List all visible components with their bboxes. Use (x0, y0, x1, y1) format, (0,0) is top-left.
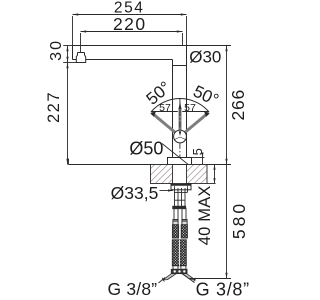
hose end left angled (163, 274, 176, 280)
arrow 580 bottom (225, 273, 227, 279)
pivot circle (174, 130, 187, 143)
arrow 40max top (213, 165, 215, 170)
svg-text:40 MAX: 40 MAX (196, 185, 214, 245)
leader G3/8 right (184, 275, 195, 283)
svg-text:580: 580 (229, 201, 249, 239)
svg-text:G 3/8”: G 3/8” (107, 279, 157, 299)
arrow 5 bottom (201, 165, 203, 170)
leader Ø33,5 (160, 190, 174, 192)
dimension 266/580 vertical line (190, 46, 232, 279)
dimension 40 MAX (214, 165, 216, 184)
body joint line (173, 65, 187, 67)
arrow arc end left (150, 112, 156, 117)
svg-text:Ø30: Ø30 (189, 47, 221, 66)
arrow handle vertical top (179, 101, 182, 110)
base plate (168, 158, 192, 165)
arrow 220 right (177, 30, 183, 32)
svg-text:57: 57 (184, 102, 196, 114)
leader G3/8 left (159, 278, 166, 284)
arrow 254 right (181, 13, 187, 15)
dimension 57 left line (152, 111, 178, 113)
handle lever vertical (gray) (179, 108, 182, 133)
hose end nut band (171, 269, 187, 273)
tube left (174, 209, 178, 220)
svg-text:30: 30 (48, 39, 65, 61)
svg-text:G 3/8”: G 3/8” (196, 279, 250, 299)
washer under counter (171, 184, 191, 190)
coupling nuts (173, 206, 186, 208)
countertop hatch left (151, 165, 173, 184)
dimension 220 line (81, 32, 183, 53)
spout outline (73, 45, 187, 47)
handle fan arc (151, 99, 209, 113)
hose end right angled (182, 274, 195, 280)
braided hose lower (172, 240, 186, 266)
leader Ø50 (162, 144, 191, 167)
center dash line (179, 99, 181, 132)
pivot tick left (174, 137, 180, 140)
arrow 266 bottom (225, 159, 227, 165)
arrow 227 top (66, 63, 68, 69)
arrow 40max bottom (213, 178, 215, 183)
shank pipes (175, 188, 188, 206)
arrow 30 bottom (66, 57, 68, 63)
braided hose left upper (172, 225, 178, 238)
arrow 266 top (225, 46, 227, 52)
svg-text:227: 227 (45, 91, 63, 123)
svg-text:Ø33,5: Ø33,5 (111, 183, 159, 203)
handle lever left (gray) (152, 113, 180, 137)
arrow 30 top (66, 46, 68, 52)
svg-text:Ø50: Ø50 (129, 139, 163, 159)
svg-text:220: 220 (113, 14, 147, 34)
countertop hatch right (187, 165, 208, 184)
body column (172, 60, 174, 158)
arrow 5 top (201, 153, 203, 158)
handle lever right (gray) (180, 113, 208, 137)
tube right (182, 209, 186, 220)
svg-text:57: 57 (159, 102, 171, 114)
pivot arrow inside (179, 131, 182, 136)
dimension 254 line (73, 15, 187, 46)
dimension 5 (192, 154, 205, 169)
aerator (76, 53, 85, 63)
arrow arc end right (204, 112, 210, 117)
pivot tick right (180, 137, 186, 140)
dimension 266 top extension (187, 45, 232, 47)
countertop top line (69, 164, 232, 166)
arrow 254 left (73, 13, 79, 15)
dimension 30 line (63, 46, 76, 63)
hose end collars (173, 266, 178, 270)
dimension 57 right line (182, 111, 208, 113)
braided hose right upper (181, 225, 187, 238)
svg-text:266: 266 (228, 89, 248, 121)
dimension 227 line (67, 63, 69, 165)
arrow 227 bottom (66, 159, 68, 165)
tube fittings (173, 220, 178, 225)
svg-text:5: 5 (190, 148, 205, 155)
arrow 220 left (81, 30, 87, 32)
